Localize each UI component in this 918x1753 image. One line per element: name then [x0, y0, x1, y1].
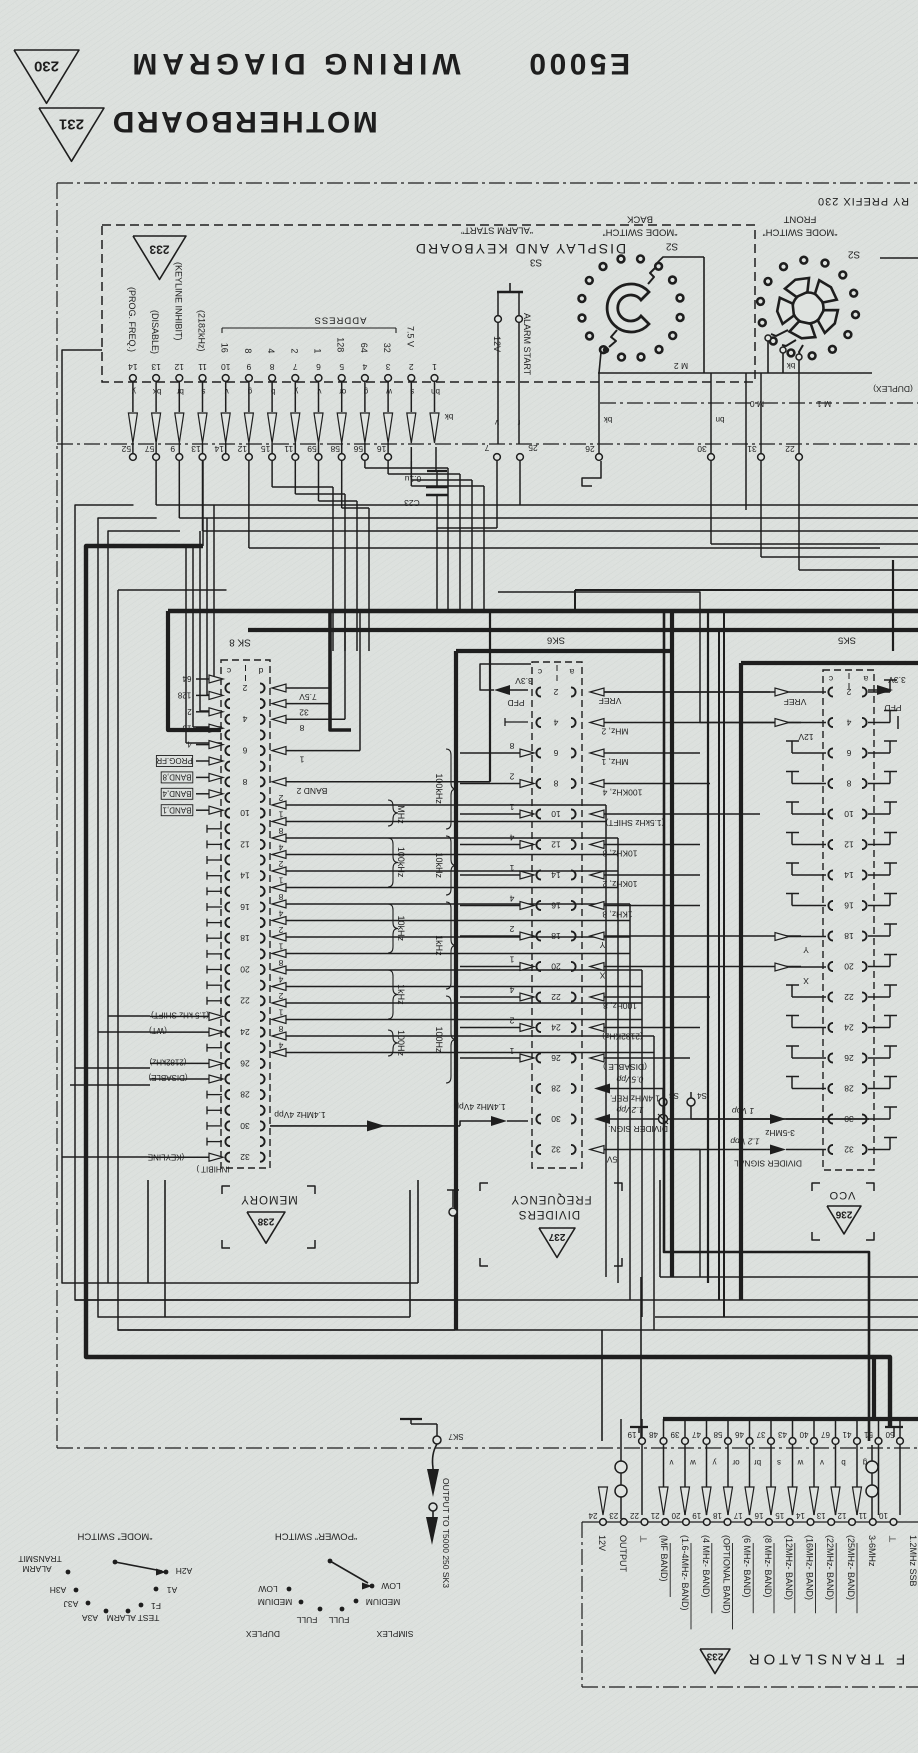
svg-text:128: 128 [177, 691, 191, 700]
svg-text:26: 26 [585, 444, 595, 454]
connector SK5 [823, 670, 874, 1170]
svg-text:d: d [258, 666, 263, 676]
svg-text:52: 52 [121, 444, 131, 454]
svg-text:16: 16 [754, 1511, 763, 1520]
wire [178, 461, 180, 518]
svg-text:FULL: FULL [296, 1615, 317, 1625]
svg-text:2: 2 [278, 991, 283, 1001]
mode positions [66, 1570, 71, 1575]
svg-text:14: 14 [240, 871, 250, 881]
brace groups second column [446, 749, 456, 829]
svg-text:2: 2 [409, 362, 414, 372]
bracket ADDRESS [222, 327, 396, 329]
S2 back rotor [607, 284, 649, 332]
svg-text:(DISABLE ): (DISABLE ) [603, 1062, 647, 1072]
svg-text:FREQUENCY: FREQUENCY [510, 1193, 591, 1205]
svg-text:BACK: BACK [626, 214, 653, 225]
svg-text:4: 4 [187, 740, 192, 749]
SK6 3.3V feed [494, 685, 510, 695]
connector dot near freq dividers [449, 1208, 457, 1216]
wires from S2 back to bus [657, 257, 704, 263]
power positions [287, 1587, 292, 1592]
svg-text:TEST ALARM: TEST ALARM [107, 1613, 160, 1623]
wire 7 down [496, 461, 498, 528]
svg-text:5: 5 [339, 362, 344, 372]
svg-text:A1: A1 [167, 1585, 178, 1595]
svg-text:12: 12 [844, 839, 854, 849]
block label VCO 236 [812, 1183, 820, 1191]
svg-text:28: 28 [240, 1090, 250, 1100]
SK5 right hook stub [868, 691, 890, 693]
translator arrows [599, 1487, 608, 1515]
SK5 VREF arrow [775, 688, 789, 696]
drawing number triangle 231 [39, 108, 104, 161]
svg-text:RY PREFIX 230: RY PREFIX 230 [817, 195, 909, 207]
svg-text:14: 14 [214, 444, 224, 454]
svg-text:Y: Y [803, 945, 809, 955]
svg-text:VREF: VREF [599, 696, 622, 706]
svg-text:10KHz, 2: 10KHz, 2 [602, 879, 637, 889]
wires to translator [601, 1330, 603, 1441]
board boundary chain line left [56, 183, 58, 1448]
svg-text:2: 2 [187, 707, 192, 716]
SK5 right hook stub [868, 813, 890, 815]
svg-text:4: 4 [553, 717, 558, 727]
svg-text:w: w [386, 387, 393, 396]
svg-text:⊥: ⊥ [639, 1535, 649, 1543]
pins 12V / ALARM START [495, 316, 502, 323]
svg-text:bk: bk [603, 415, 612, 424]
svg-text:1KHz, 8: 1KHz, 8 [602, 909, 633, 919]
svg-text:4: 4 [509, 893, 514, 903]
SK8-SK6 link verticals [605, 805, 607, 1277]
SK5 pin 28 [828, 1084, 833, 1093]
svg-text:31: 31 [747, 444, 757, 454]
svg-text:28: 28 [551, 1083, 561, 1093]
SK5 pin 10 [828, 809, 833, 818]
svg-text:100Hz: 100Hz [434, 1027, 444, 1054]
drawing number triangle 233 (keyboard) [133, 236, 186, 280]
svg-text:12: 12 [240, 839, 250, 849]
svg-text:46: 46 [735, 1430, 744, 1439]
svg-text:10kHz: 10kHz [396, 916, 406, 942]
svg-text:VREF: VREF [784, 697, 807, 707]
svg-text:15: 15 [261, 444, 271, 454]
svg-text:C23: C23 [404, 498, 420, 508]
SK5 right hook stub [868, 905, 890, 907]
svg-text:2: 2 [509, 924, 514, 934]
svg-text:16: 16 [844, 900, 854, 910]
svg-text:233: 233 [706, 1650, 723, 1661]
svg-text:SK7: SK7 [448, 1432, 464, 1441]
svg-text:7.5V: 7.5V [299, 692, 317, 702]
svg-text:10: 10 [240, 808, 250, 818]
svg-text:1.2Vpp: 1.2Vpp [616, 1105, 643, 1115]
svg-text:58: 58 [713, 1430, 722, 1439]
svg-text:3-6MHz: 3-6MHz [867, 1535, 877, 1567]
svg-text:FRONT: FRONT [783, 214, 816, 225]
svg-text:E5000: E5000 [526, 47, 630, 80]
svg-text:8: 8 [242, 777, 247, 787]
SK5 right hook stub [868, 996, 890, 998]
SK6 left arrows with digits [520, 749, 534, 757]
svg-text:16: 16 [377, 444, 387, 454]
thick left bus wire [86, 546, 890, 1428]
svg-text:OUTPUT TO T5000 250 SK3: OUTPUT TO T5000 250 SK3 [441, 1478, 451, 1588]
svg-text:10: 10 [221, 362, 231, 372]
S3 S4 trimmers [659, 1098, 667, 1106]
svg-text:(1.6-4MHz- BAND): (1.6-4MHz- BAND) [680, 1535, 690, 1611]
svg-text:bk: bk [444, 412, 453, 421]
wire 12V down [497, 322, 499, 444]
svg-text:22: 22 [551, 992, 561, 1002]
SK8 left input arrows [209, 675, 223, 683]
svg-text:48: 48 [649, 1430, 658, 1439]
svg-text:32: 32 [299, 708, 309, 718]
svg-text:(OPTIONAL BAND): (OPTIONAL BAND) [722, 1535, 732, 1614]
svg-text:19: 19 [692, 1511, 701, 1520]
svg-text:30: 30 [240, 1121, 250, 1131]
svg-text:r: r [517, 418, 520, 427]
svg-text:12: 12 [551, 839, 561, 849]
svg-text:9: 9 [246, 362, 251, 372]
svg-text:DIVIDER SIGN.: DIVIDER SIGN. [608, 1124, 668, 1134]
svg-text:br: br [754, 1458, 761, 1467]
SK8 1.4MHz 4Vpp output wire [270, 1125, 460, 1127]
svg-text:8: 8 [269, 362, 274, 372]
svg-text:43: 43 [778, 1430, 787, 1439]
7.5V thick riser [330, 612, 351, 730]
SK8 lower-left labelled arrows [209, 1012, 223, 1020]
SK5 right hook stub [868, 1057, 890, 1059]
svg-text:M 0: M 0 [750, 399, 764, 409]
SK5 right hook stub [868, 783, 890, 785]
svg-text:s: s [777, 1458, 781, 1467]
wire [364, 461, 366, 468]
wire [410, 461, 412, 480]
svg-text:2: 2 [553, 687, 558, 697]
svg-text:0.5Vpp: 0.5Vpp [616, 1074, 643, 1084]
feeders to SK8 lower-left arrows [62, 1156, 150, 1158]
svg-text:20: 20 [551, 961, 561, 971]
svg-text:14: 14 [128, 362, 138, 372]
SK5 right hook stub [868, 1088, 890, 1090]
svg-text:1: 1 [432, 362, 437, 372]
capacitor C23 0.1u [435, 447, 437, 471]
svg-text:22: 22 [785, 444, 795, 454]
svg-text:100kHz: 100kHz [396, 847, 406, 878]
svg-text:13: 13 [191, 444, 201, 454]
PFD stub [505, 721, 528, 723]
svg-text:16: 16 [551, 900, 561, 910]
svg-text:12: 12 [837, 1511, 846, 1520]
svg-text:y: y [713, 1458, 717, 1467]
svg-text:1: 1 [278, 1007, 283, 1017]
svg-text:MOTHERBOARD: MOTHERBOARD [110, 105, 378, 138]
board boundary chain line mid2 [57, 443, 918, 445]
svg-text:S3: S3 [669, 1091, 679, 1100]
wire pin2 stair [410, 447, 412, 486]
svg-text:64: 64 [359, 343, 369, 353]
svg-text:(2182KHz): (2182KHz) [602, 1031, 643, 1041]
svg-text:1: 1 [509, 1046, 514, 1056]
svg-text:⊥: ⊥ [888, 1535, 898, 1543]
svg-text:MEDIUM: MEDIUM [258, 1597, 292, 1607]
svg-text:4: 4 [509, 832, 514, 842]
svg-text:1.2MHz SSB: 1.2MHz SSB [908, 1535, 918, 1587]
svg-text:PFD: PFD [508, 698, 525, 708]
svg-text:32: 32 [382, 343, 392, 353]
svg-text:14: 14 [844, 870, 854, 880]
svg-text:1.4MHz REF.: 1.4MHz REF. [610, 1093, 660, 1103]
bus line to SK6 (thick) [248, 628, 918, 632]
svg-text:4: 4 [846, 717, 851, 727]
svg-text:59: 59 [307, 444, 317, 454]
svg-text:DUPLEX: DUPLEX [246, 1629, 280, 1639]
svg-text:MHz, 1: MHz, 1 [601, 757, 628, 767]
svg-text:ALARM START: ALARM START [522, 313, 532, 376]
svg-text:M 1: M 1 [817, 399, 831, 409]
svg-text:v: v [670, 1458, 674, 1467]
svg-text:3.3V: 3.3V [888, 675, 906, 685]
wires mode bus down to pins 26 30 31 22 [598, 373, 600, 453]
svg-text:3.3V: 3.3V [515, 676, 533, 686]
svg-text:18: 18 [240, 933, 250, 943]
svg-text:7: 7 [484, 443, 489, 453]
svg-text:64: 64 [182, 674, 191, 683]
SK5 right hook stub [868, 935, 890, 937]
svg-text:231: 231 [59, 116, 84, 133]
svg-text:(12MHz- BAND): (12MHz- BAND) [784, 1535, 794, 1600]
svg-text:DISPLAY AND KEYBOARD: DISPLAY AND KEYBOARD [414, 241, 626, 257]
mode switch arrow [113, 1560, 118, 1565]
svg-text:32: 32 [844, 1144, 854, 1154]
svg-text:S2: S2 [847, 248, 860, 259]
SK5 right hook stub [868, 874, 890, 876]
feeders to SK8 left arrows [213, 505, 215, 679]
bus risers [147, 1180, 149, 1283]
divider signal path to VCO [664, 611, 869, 1441]
svg-text:12: 12 [174, 362, 184, 372]
svg-text:1.4MHz 4Vpp: 1.4MHz 4Vpp [274, 1110, 326, 1120]
SK6 right signal wires [590, 688, 604, 696]
svg-text:100Hz: 100Hz [396, 1030, 406, 1057]
svg-text:BAND 2: BAND 2 [296, 786, 327, 796]
SK5 right hook stub [868, 844, 890, 846]
svg-text:a: a [569, 667, 574, 677]
svg-text:7.5 V: 7.5 V [405, 326, 415, 347]
SK5 pin 26 [828, 1053, 833, 1062]
svg-text:SK5: SK5 [838, 635, 856, 646]
svg-text:(KEYLINE: (KEYLINE [148, 1152, 184, 1161]
svg-text:30: 30 [551, 1114, 561, 1124]
12V wire to SK5 [498, 592, 801, 723]
svg-text:(DISABLE): (DISABLE) [150, 310, 160, 354]
svg-text:14: 14 [551, 870, 561, 880]
svg-text:OUTPUT: OUTPUT [618, 1535, 628, 1573]
svg-text:15: 15 [775, 1511, 784, 1520]
svg-text:230: 230 [34, 58, 59, 75]
svg-text:30: 30 [844, 1114, 854, 1124]
svg-text:SK6: SK6 [547, 635, 565, 646]
SK5 row30 3-5MHz 1Vpp [770, 1114, 786, 1124]
svg-text:10: 10 [844, 809, 854, 819]
SK5 pin 18 [828, 931, 833, 940]
svg-text:8: 8 [846, 778, 851, 788]
vertical buses mid [707, 611, 709, 1283]
SK8 pin rows [225, 683, 230, 692]
svg-text:238: 238 [257, 1215, 274, 1226]
svg-text:22: 22 [630, 1511, 639, 1520]
svg-text:6: 6 [316, 362, 321, 372]
svg-text:M 2: M 2 [674, 361, 688, 371]
svg-text:A3A: A3A [82, 1613, 98, 1623]
svg-text:8: 8 [553, 778, 558, 788]
svg-text:40: 40 [799, 1430, 808, 1439]
SK5 right hook stub [868, 1118, 890, 1120]
wire [248, 461, 250, 548]
svg-text:or: or [339, 387, 346, 396]
S2 front contacts [771, 330, 788, 336]
svg-text:INHIBIT ): INHIBIT ) [196, 1164, 230, 1173]
svg-text:1: 1 [278, 941, 283, 951]
board boundary chain line bottom [57, 1447, 918, 1449]
svg-text:236: 236 [835, 1208, 852, 1219]
svg-text:(4 MHz- BAND): (4 MHz- BAND) [701, 1535, 711, 1598]
wire pin9 into thick bus [202, 461, 204, 546]
svg-text:67: 67 [821, 1430, 830, 1439]
svg-text:20: 20 [240, 965, 250, 975]
svg-text:233: 233 [149, 243, 169, 257]
SK5 pin 24 [828, 1023, 833, 1032]
translator upper pins [639, 1438, 646, 1445]
svg-text:22: 22 [844, 992, 854, 1002]
svg-text:12V: 12V [798, 732, 813, 742]
svg-text:4: 4 [362, 362, 367, 372]
svg-text:X: X [599, 970, 605, 980]
mode bus wire M0 M1 M2 [598, 372, 872, 374]
svg-text:br: br [176, 387, 183, 396]
svg-text:MHz: MHz [396, 805, 406, 824]
svg-text:BAND,8: BAND,8 [162, 773, 191, 782]
svg-text:SIMPLEX: SIMPLEX [376, 1629, 413, 1639]
svg-text:2: 2 [509, 1015, 514, 1025]
wire [294, 461, 296, 494]
svg-text:FULL: FULL [328, 1615, 349, 1625]
svg-text:4: 4 [278, 842, 283, 852]
SK5 pin 16 [828, 901, 833, 910]
svg-text:11: 11 [858, 1511, 867, 1520]
svg-text:“MODE SWITCH”: “MODE SWITCH” [763, 227, 838, 238]
main bus (thick) upper [168, 609, 918, 614]
svg-text:(WT): (WT) [149, 1026, 167, 1035]
svg-text:TRANSMIT: TRANSMIT [18, 1554, 61, 1564]
block: DISPLAY AND KEYBOARD (233) [102, 225, 755, 382]
translator top bus (thick) [663, 1417, 918, 1421]
brace groups MHz 100kHz 10kHz 1kHz 100Hz [388, 800, 398, 826]
SK5 pin 20 [828, 962, 833, 971]
svg-text:WIRING DIAGRAM: WIRING DIAGRAM [127, 47, 460, 80]
svg-text:PFD: PFD [885, 703, 902, 713]
svg-text:100KHz, 4: 100KHz, 4 [602, 787, 642, 797]
translator lower pin row on box edge [582, 1521, 918, 1523]
SK5 pin 8 [828, 779, 833, 788]
svg-text:23: 23 [609, 1511, 618, 1520]
svg-text:1: 1 [299, 755, 304, 765]
wire [202, 461, 204, 531]
connector SK6 [532, 662, 582, 1168]
SK5 right hook stub [868, 722, 890, 724]
svg-text:Y: Y [599, 940, 605, 950]
svg-text:11: 11 [284, 444, 293, 454]
SK5 pin 12 [828, 840, 833, 849]
motherboard connector pins row [387, 443, 389, 454]
svg-text:v: v [495, 418, 499, 427]
svg-text:24: 24 [844, 1022, 854, 1032]
svg-text:8: 8 [299, 723, 304, 733]
wire exiting right edge [880, 257, 918, 259]
svg-text:2: 2 [509, 771, 514, 781]
svg-text:w: w [797, 1458, 804, 1467]
SK5 pin 2 [828, 687, 833, 696]
SK7 output connector [400, 1418, 422, 1420]
svg-text:PROG.FR: PROG.FR [156, 756, 193, 765]
SK6-SK5 row links [604, 691, 775, 693]
translator box dash-dot edges [581, 1522, 583, 1687]
SK5 12V arrow [775, 719, 789, 727]
12V fuse symbols [620, 1419, 622, 1519]
svg-text:(MF BAND): (MF BAND) [659, 1535, 669, 1582]
svg-text:2: 2 [846, 687, 851, 697]
svg-text:22: 22 [240, 996, 250, 1006]
svg-text:56: 56 [353, 444, 363, 454]
svg-text:50: 50 [885, 1430, 894, 1439]
svg-text:F1: F1 [151, 1601, 161, 1611]
svg-text:bn: bn [716, 415, 725, 424]
svg-text:0.1u: 0.1u [404, 474, 421, 484]
block label MEMORY 238 [222, 1186, 230, 1194]
svg-text:(PROG. FREQ.): (PROG. FREQ.) [127, 287, 137, 352]
svg-text:b: b [841, 1458, 846, 1467]
svg-text:1: 1 [509, 802, 514, 812]
S2 front rotor [793, 293, 824, 324]
svg-text:24: 24 [588, 1511, 597, 1520]
svg-text:“MODE” SWITCH: “MODE” SWITCH [77, 1531, 152, 1542]
svg-text:S3: S3 [529, 256, 542, 267]
wire from 26 hook [582, 461, 601, 486]
svg-text:20: 20 [844, 961, 854, 971]
SK5 pin 30 [828, 1114, 833, 1123]
rotary switch S2 MODE SWITCH FRONT [852, 311, 859, 318]
svg-text:4: 4 [278, 974, 283, 984]
svg-text:11: 11 [198, 362, 207, 372]
svg-text:26: 26 [551, 1053, 561, 1063]
SK8 left unconnected stubs [207, 828, 222, 830]
svg-text:37: 37 [756, 1430, 765, 1439]
svg-text:LOW: LOW [258, 1584, 277, 1594]
svg-text:16: 16 [220, 343, 230, 353]
svg-text:A3J: A3J [64, 1599, 79, 1609]
svg-text:1: 1 [278, 809, 283, 819]
svg-text:2: 2 [242, 683, 247, 693]
svg-text:1.4MHz 4Vpp: 1.4MHz 4Vpp [454, 1102, 506, 1112]
svg-text:(DISABLE): (DISABLE) [148, 1073, 187, 1082]
svg-text:8: 8 [278, 1024, 283, 1034]
svg-text:S2: S2 [665, 240, 678, 251]
svg-text:13: 13 [151, 362, 161, 372]
wires BAND2 7.5V risers [329, 612, 331, 688]
svg-text:18: 18 [551, 931, 561, 941]
